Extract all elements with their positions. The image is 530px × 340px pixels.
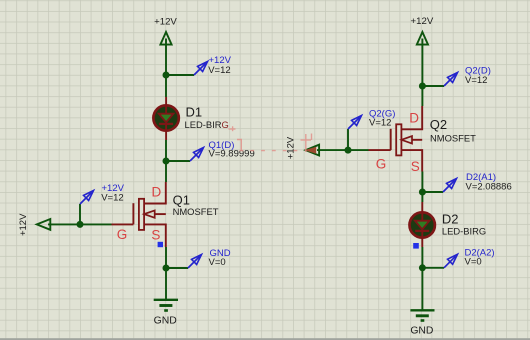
wire D2(A1) node to D2	[421, 192, 423, 202]
svg-text:+12V: +12V	[411, 16, 434, 27]
wire D2 cathode to GND node (right)	[421, 247, 423, 268]
junction node (right +12V rail)	[419, 83, 426, 90]
svg-text:V=0: V=0	[209, 257, 226, 268]
svg-text:D2: D2	[442, 211, 459, 226]
svg-text:Q2: Q2	[430, 117, 447, 132]
voltage probe on Q1 gate rail	[80, 188, 96, 224]
wire GND node to ground (left)	[165, 268, 167, 300]
ground symbol (right)	[410, 310, 434, 320]
svg-text:G: G	[117, 227, 128, 242]
svg-text:G: G	[376, 157, 387, 172]
svg-text:V=12: V=12	[101, 193, 123, 204]
voltage probe Q1(D)	[166, 145, 206, 161]
svg-text:+12V: +12V	[286, 136, 297, 159]
transistor Q1 (NMOSFET)	[112, 182, 166, 247]
svg-text:NMOSFET: NMOSFET	[430, 132, 476, 143]
wire Q1 drain node to Q1 drain pin	[165, 161, 167, 182]
ghost solid arrow artifact over right terminal	[304, 147, 316, 154]
voltage probe Q2(D)	[422, 70, 460, 86]
wire D1 cathode to Q1 drain node	[165, 140, 167, 161]
origin marker Q1 (blue square)	[158, 242, 163, 247]
voltage probe D2(A1)	[422, 176, 459, 192]
svg-text:+12V: +12V	[18, 213, 29, 236]
power terminal +12V (left, pointing left)	[37, 219, 51, 230]
wire D2(A2) node to ground (right)	[421, 268, 423, 310]
svg-text:LED-BIRG: LED-BIRG	[185, 119, 229, 130]
ghost wire artifacts (faint pink)	[229, 126, 312, 152]
wire Q2 source to D2 anode node	[421, 172, 423, 193]
svg-text:+12V: +12V	[154, 17, 177, 28]
voltage probe Q2(G)	[348, 113, 364, 150]
voltage probe GND	[166, 252, 204, 268]
wire Q1 gate to left rail	[48, 223, 112, 225]
bottom window edge strip	[0, 338, 530, 340]
junction node (left +12V rail)	[163, 72, 170, 79]
svg-text:V=2.08886: V=2.08886	[466, 182, 512, 193]
wire Q1 source to GND node	[165, 247, 167, 268]
svg-text:S: S	[411, 159, 420, 174]
transistor Q2 (NMOSFET)	[369, 106, 423, 172]
svg-text:S: S	[151, 228, 160, 243]
wire right rail to Q2 drain	[421, 86, 423, 106]
voltage probe on left +12V rail	[166, 59, 210, 75]
svg-text:V=12: V=12	[369, 117, 391, 128]
svg-text:V=12: V=12	[208, 65, 230, 76]
svg-text:LED-BIRG: LED-BIRG	[442, 226, 486, 237]
wire Q2 gate to left	[317, 149, 369, 151]
power terminal +12V (right circuit, pointing left)	[306, 145, 320, 156]
svg-text:V=12: V=12	[465, 75, 487, 86]
svg-text:D: D	[409, 110, 419, 125]
junction node GND (left)	[163, 265, 170, 272]
svg-text:NMOSFET: NMOSFET	[173, 206, 219, 217]
svg-text:D: D	[152, 185, 162, 200]
wire +12V rail to D1 anode	[165, 75, 167, 97]
junction node (gate rail left)	[77, 221, 84, 228]
svg-text:GND: GND	[154, 316, 177, 327]
junction node Q1(D)	[163, 158, 170, 165]
power terminal +12V (right top)	[417, 32, 428, 86]
voltage probe D2(A2)	[422, 252, 460, 268]
junction node D2(A1)	[419, 189, 426, 196]
junction node (gate rail right)	[345, 147, 352, 154]
origin marker D2 (blue square)	[413, 243, 419, 249]
svg-text:D1: D1	[186, 105, 203, 120]
ground symbol (left)	[154, 300, 178, 311]
svg-text:V=0: V=0	[465, 257, 482, 268]
LED D1 (LED-BIRG)	[153, 97, 178, 140]
power terminal +12V (left top)	[160, 32, 171, 75]
LED D2 (LED-BIRG)	[410, 202, 435, 247]
svg-text:V=9.89999: V=9.89999	[209, 148, 255, 159]
junction node D2(A2)	[419, 264, 426, 271]
svg-text:GND: GND	[410, 326, 433, 337]
